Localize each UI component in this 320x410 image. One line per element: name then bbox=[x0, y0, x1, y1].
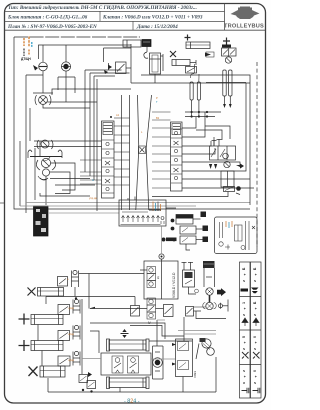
svg-text:ц2дв: ц2дв bbox=[68, 332, 74, 336]
svg-text:+: + bbox=[255, 307, 257, 311]
svg-text:ц3дв: ц3дв bbox=[68, 358, 74, 362]
pump unit bottom bbox=[79, 372, 96, 393]
glyph comb in box bbox=[121, 216, 165, 225]
small valve under A bbox=[186, 67, 197, 74]
lower rect bbox=[221, 171, 234, 187]
wire gray lift feed bbox=[82, 358, 101, 360]
svg-text:z: z bbox=[253, 314, 257, 316]
svg-text:Б: Б bbox=[253, 267, 257, 270]
gauge circle bbox=[224, 161, 230, 167]
node dot bbox=[110, 116, 112, 118]
svg-text:z: z bbox=[242, 348, 246, 350]
svg-text:Блок питания : C-GO-L(Х)-G1..: Блок питания : C-GO-L(Х)-G1...06 bbox=[7, 14, 88, 21]
relay box bbox=[172, 339, 193, 377]
X mark bbox=[170, 51, 176, 57]
cell bottom glyphs bbox=[241, 287, 260, 393]
steering column funnel bbox=[136, 95, 139, 210]
table column 2 bbox=[251, 262, 262, 398]
wire right collector bbox=[81, 299, 83, 374]
table column 1 bbox=[240, 262, 251, 398]
svg-text:Б: Б bbox=[253, 301, 257, 304]
label stack ticks bbox=[24, 37, 32, 57]
wire mid rails down bbox=[84, 70, 86, 172]
valve stack S bbox=[147, 267, 156, 288]
down arrows bbox=[209, 164, 212, 169]
rod end marks bbox=[205, 53, 211, 57]
solenoid block bbox=[182, 262, 197, 294]
hydro motor bbox=[153, 346, 164, 379]
accumulator block (dark) bbox=[142, 40, 151, 47]
pump enclosure box bbox=[39, 45, 132, 59]
svg-text:+: + bbox=[244, 375, 246, 379]
wire cyl stem down bbox=[154, 74, 156, 83]
micro text row bbox=[122, 210, 161, 212]
wire cluster feeds bbox=[213, 137, 215, 146]
svg-text:+: + bbox=[244, 341, 246, 345]
wire row0 links bbox=[45, 297, 47, 305]
wire cylinder chain bbox=[37, 325, 39, 341]
wire RV1 out bbox=[47, 101, 97, 103]
axle valve 0 bbox=[67, 270, 79, 299]
manifold column A bbox=[102, 121, 115, 198]
double arrow symbol bbox=[122, 329, 126, 338]
svg-text:+: + bbox=[255, 375, 257, 379]
wire bottom-left of v066 bbox=[79, 273, 144, 275]
valve V2 bbox=[34, 140, 102, 149]
hourglass rails bbox=[121, 95, 123, 210]
svg-text:ц1дв: ц1дв bbox=[68, 306, 74, 310]
wire node stem bbox=[161, 226, 163, 254]
wire cluster drop bbox=[152, 192, 228, 197]
fold mark tick bbox=[0, 202, 5, 204]
svg-text:V066.D / V012.D: V066.D / V012.D bbox=[172, 272, 176, 298]
cross by cylinder B bbox=[185, 35, 191, 41]
funnel valve bbox=[139, 146, 146, 154]
wire into stack bbox=[140, 269, 147, 271]
svg-text:Клапан : V066.D или VO12.D +: Клапан : V066.D или VO12.D + V011 + V093 bbox=[102, 15, 203, 21]
svg-text:Б: Б bbox=[242, 267, 246, 270]
vertical accumulator cylinder bbox=[150, 53, 161, 74]
wire box out right bbox=[166, 207, 176, 209]
row3 divider bbox=[132, 21, 134, 30]
wire feed to trailer valve bbox=[194, 306, 206, 308]
valve stack L1 bbox=[112, 356, 123, 373]
valve box mid bbox=[131, 306, 140, 317]
wire right bus bbox=[206, 82, 246, 84]
svg-text:x: x bbox=[242, 382, 246, 384]
svg-text:0: 0 bbox=[253, 336, 257, 338]
svg-text:z: z bbox=[242, 370, 246, 372]
dashed margin rail bbox=[256, 62, 258, 247]
svg-text:P: P bbox=[156, 96, 158, 100]
auxiliary rounded box bbox=[215, 217, 258, 254]
wire to mid rails bbox=[52, 89, 131, 95]
hand valve block bbox=[210, 139, 236, 160]
svg-text:A1: A1 bbox=[116, 113, 120, 117]
wire arrow feed bbox=[90, 308, 147, 310]
wire pump1 stem bbox=[42, 45, 44, 62]
cylinder bottom h bbox=[107, 377, 150, 389]
svg-text:Дата : 15/12/2004: Дата : 15/12/2004 bbox=[136, 24, 178, 30]
row dividers bbox=[240, 296, 262, 298]
svg-text:z: z bbox=[242, 314, 246, 316]
wire comb left A bbox=[80, 172, 102, 184]
wire y112 bbox=[185, 111, 221, 113]
micro gauge bars colored bbox=[153, 202, 161, 212]
relief valve RV1 bbox=[33, 93, 53, 105]
pressure unit circles bbox=[200, 338, 215, 355]
svg-text:- 824 -: - 824 - bbox=[124, 399, 140, 405]
wire risers bbox=[182, 377, 184, 393]
wire y75 box top bbox=[141, 75, 250, 205]
svg-text:+: + bbox=[255, 341, 257, 345]
comb right of hourglass bbox=[152, 112, 171, 188]
wire stepped routes right of B bbox=[182, 117, 196, 128]
axle valve 2 bbox=[68, 325, 80, 339]
wire left rail to tank bbox=[14, 37, 250, 209]
cylinder top h bbox=[107, 339, 150, 351]
long wire runs mid bbox=[26, 202, 250, 204]
wire box feeds top bbox=[127, 198, 129, 200]
wire left rails bbox=[25, 75, 27, 213]
svg-text:+: + bbox=[244, 307, 246, 311]
title block bottom line bbox=[5, 29, 266, 31]
svg-text:z: z bbox=[253, 280, 257, 282]
logo glyph bbox=[231, 7, 260, 20]
comb left of hourglass bbox=[80, 118, 130, 185]
lift block frame bbox=[90, 331, 99, 353]
wire bottom bus bbox=[48, 391, 216, 393]
svg-text:Тип: Внешний гидроусилитель DH: Тип: Внешний гидроусилитель DH-5M С ГИДР… bbox=[8, 4, 197, 11]
wire valve outputs bbox=[50, 178, 90, 180]
junction dots bbox=[191, 111, 193, 113]
valve stack N bbox=[147, 298, 156, 319]
junction circle node bbox=[159, 254, 164, 259]
wire schematic top border bbox=[14, 36, 140, 38]
svg-text:План № : SW-97-V066.D-V065-: План № : SW-97-V066.D-V065-2003-EN bbox=[7, 24, 97, 30]
bottom valve bbox=[224, 187, 235, 192]
filter assembly bbox=[195, 261, 228, 319]
steering valve cross assembly bbox=[28, 141, 75, 200]
svg-text:B2: B2 bbox=[156, 116, 160, 120]
brake capsules pair 2 bbox=[223, 70, 232, 108]
horizontal cylinder A bbox=[172, 60, 190, 66]
valve box top mid bbox=[116, 62, 127, 74]
svg-text:упр.дв: упр.дв bbox=[89, 197, 97, 200]
page frame bbox=[5, 4, 266, 404]
wire across low bbox=[178, 330, 216, 332]
svg-text:z: z bbox=[242, 280, 246, 282]
svg-text:z: z bbox=[253, 348, 257, 350]
top right valve cluster bbox=[222, 38, 237, 64]
hatch top B bbox=[172, 124, 181, 135]
svg-text:ДТ/ЦН: ДТ/ЦН bbox=[21, 57, 31, 61]
compact valve block bbox=[171, 212, 208, 251]
cell glyphs bbox=[242, 267, 257, 384]
tank block (dark) bbox=[34, 206, 49, 236]
valve stack L2 bbox=[128, 356, 139, 373]
horizontal cylinder B bbox=[186, 42, 210, 49]
cylinder row 2 bbox=[19, 331, 70, 352]
manifold column B bbox=[171, 122, 183, 191]
filled port dot bbox=[236, 186, 241, 191]
bolt connector glyph bbox=[162, 238, 166, 242]
V066 block box bbox=[144, 261, 178, 299]
svg-text:+: + bbox=[255, 273, 257, 277]
svg-text:1: 1 bbox=[242, 302, 246, 304]
pointer hand bbox=[33, 65, 38, 71]
wire pump outlets bbox=[42, 71, 44, 93]
power pack box bbox=[119, 200, 166, 226]
wires into block bbox=[90, 323, 165, 339]
svg-text:V093: V093 bbox=[193, 371, 197, 378]
logo box divider bbox=[224, 4, 226, 31]
svg-text:z: z bbox=[253, 382, 257, 384]
small box right bbox=[164, 305, 174, 317]
pump P1 (filter circle) bbox=[39, 62, 48, 71]
small box left of accumulator bbox=[123, 40, 141, 47]
title row line 2 bbox=[5, 20, 225, 22]
wire valve stems bbox=[103, 48, 105, 62]
right arrow bbox=[236, 163, 244, 168]
axle valve 1 bbox=[68, 299, 80, 313]
pump P2 (filled) bbox=[61, 62, 70, 71]
brake capsules pair 1 bbox=[190, 64, 201, 117]
cylinder row 0 bbox=[28, 277, 68, 297]
spring curl bbox=[144, 52, 148, 58]
svg-text:5: 5 bbox=[242, 336, 246, 338]
row2 divider bbox=[99, 11, 101, 21]
wire pump2 stem bbox=[65, 45, 67, 62]
title row line 1 bbox=[5, 10, 225, 12]
wire y83 bus bbox=[131, 82, 250, 84]
cylinder row 1 bbox=[19, 305, 70, 325]
axle valve 3 bbox=[68, 351, 80, 365]
svg-text:TROLLEYBUS: TROLLEYBUS bbox=[224, 24, 264, 30]
wire accumulator stem bbox=[146, 47, 148, 53]
cylinder row 3 bbox=[29, 356, 71, 377]
svg-text:+: + bbox=[244, 273, 246, 277]
svg-text:0: 0 bbox=[253, 370, 257, 372]
port labels colored bbox=[89, 96, 160, 200]
